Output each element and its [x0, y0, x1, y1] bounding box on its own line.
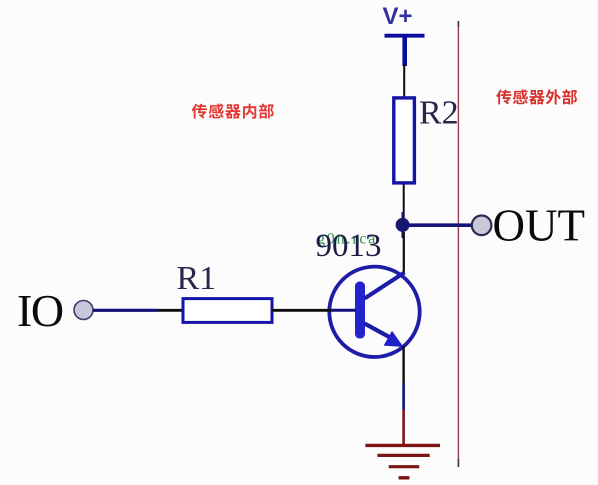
wire R2 to node	[403, 184, 405, 219]
wire node down to collector	[403, 232, 405, 275]
wire emitter to ground (black segment)	[402, 346, 404, 383]
wire emitter to ground (navy segment)	[402, 383, 405, 410]
svg-text:OUT: OUT	[493, 201, 585, 251]
emitter diagonal	[365, 324, 393, 339]
emitter arrowhead	[384, 331, 404, 347]
wire IO pin to R1 (navy segment)	[93, 309, 158, 312]
node: collector junction	[396, 218, 410, 232]
power symbol V+ bar	[385, 34, 425, 38]
svg-text:V+: V+	[383, 3, 413, 30]
wire node to OUT pin	[403, 223, 472, 227]
ground symbol bar 1	[365, 444, 440, 447]
label 传感器外部 (sensor external)	[496, 89, 511, 104]
svg-text:R1: R1	[177, 260, 217, 297]
ground symbol bar 4	[399, 476, 410, 479]
svg-text:IO: IO	[17, 285, 63, 336]
wire: V+ stub	[402, 36, 407, 66]
collector diagonal	[365, 273, 405, 299]
wire emitter to ground (maroon segment)	[402, 410, 405, 445]
pin OUT	[472, 216, 492, 236]
transistor Q1 (9013) circle	[329, 267, 419, 357]
resistor R2	[394, 98, 415, 183]
resistor R1	[183, 299, 272, 323]
boundary line between sensor internal and external	[457, 21, 459, 467]
wire node stubs	[402, 212, 405, 238]
pin IO	[74, 301, 93, 320]
wire R1 to transistor base	[272, 309, 331, 312]
wire base inside circle	[331, 309, 356, 312]
svg-text:9013: 9013	[316, 228, 382, 264]
wire to R1 (black segment)	[158, 309, 183, 312]
wire V+ to R2	[403, 64, 405, 97]
ground symbol bar 2	[377, 454, 429, 457]
label 传感器内部 (sensor internal)	[192, 104, 207, 119]
svg-text:R2: R2	[419, 95, 459, 132]
transistor base bar	[355, 282, 365, 339]
ground symbol bar 3	[389, 465, 420, 468]
